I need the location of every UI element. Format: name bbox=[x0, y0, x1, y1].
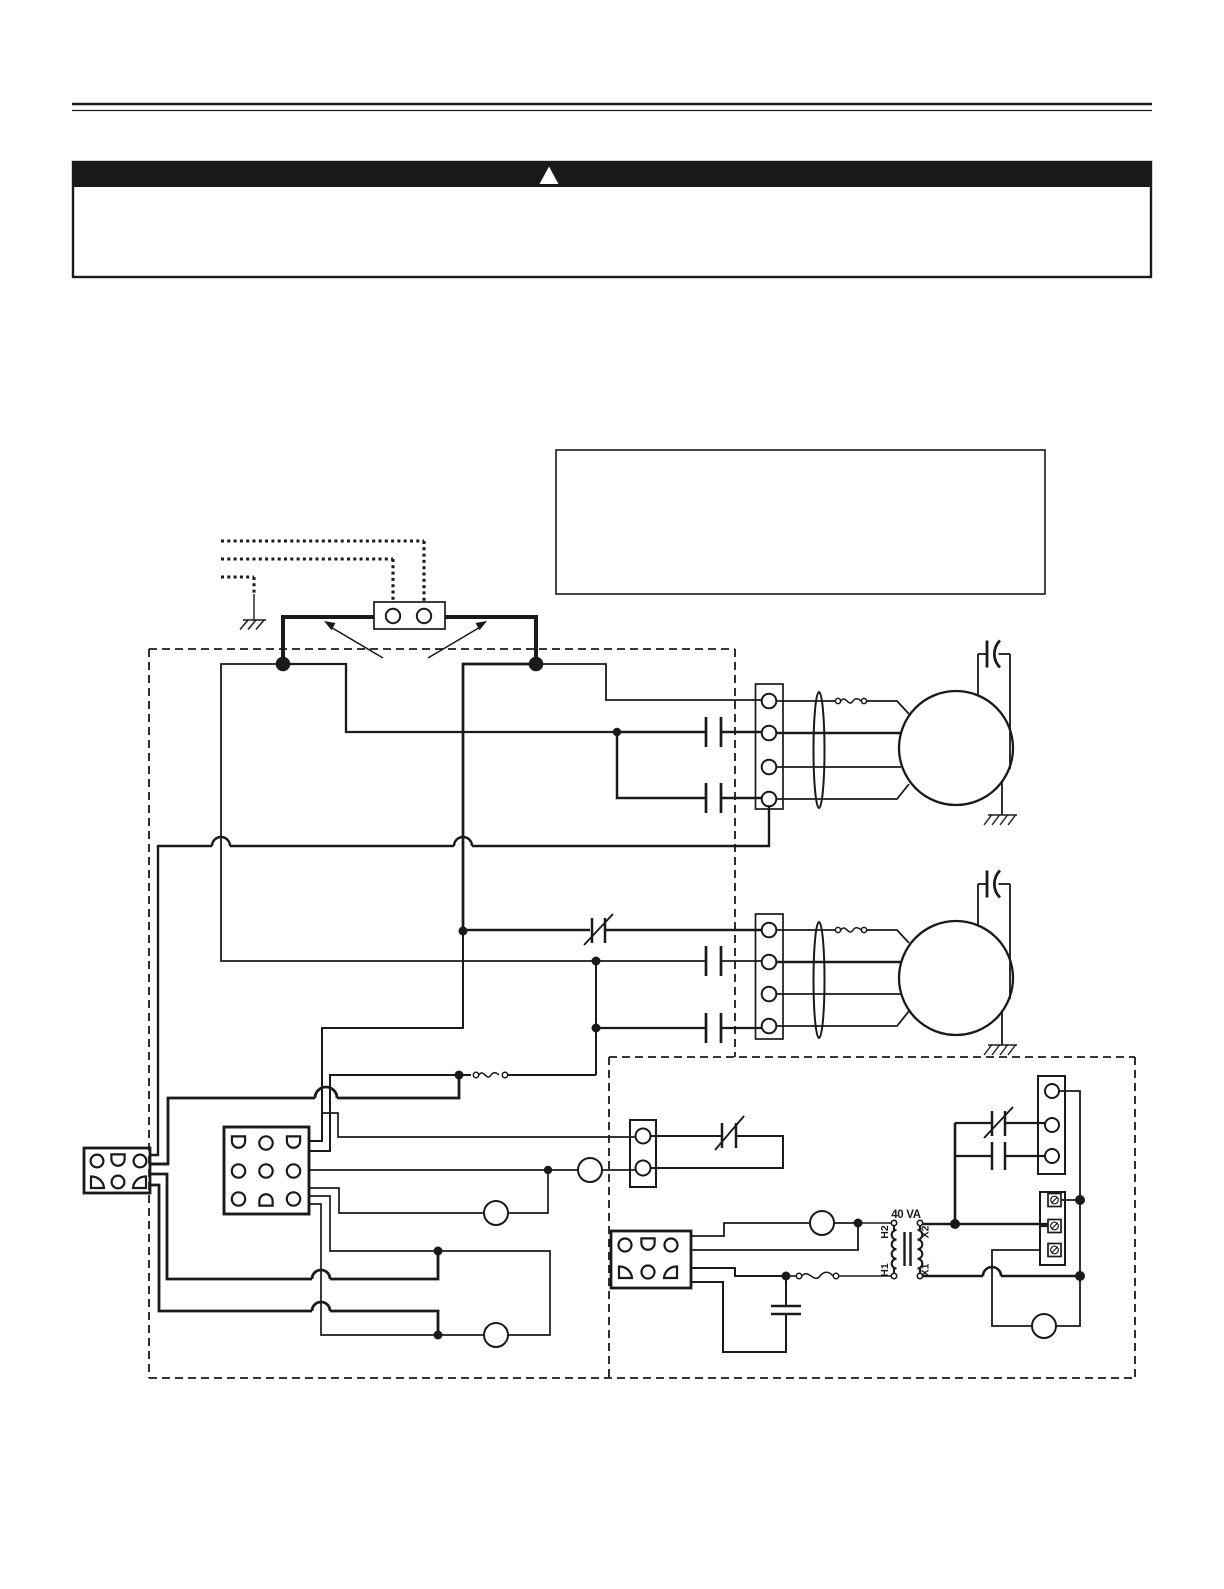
supply wire L1 (thick) bbox=[283, 617, 374, 666]
terminal TB2-3 bbox=[762, 987, 777, 1002]
wire overload to motor bbox=[866, 930, 909, 943]
wire L2 to blower terminal 1 bbox=[536, 664, 762, 700]
transformer T1 terminal H2 bbox=[891, 1220, 896, 1225]
junction box bbox=[374, 602, 445, 629]
wire J1 stub mid bbox=[309, 1196, 550, 1335]
wire J1 row2 to lamp bbox=[309, 1169, 578, 1171]
wire contact to blower terminal 2 bbox=[621, 731, 706, 734]
warning triangle icon bbox=[540, 167, 559, 185]
wire L1 to blower contact bbox=[283, 664, 617, 732]
connector J1 pin 21 bbox=[232, 1164, 245, 1177]
wire to stat contact bbox=[955, 1155, 992, 1157]
contact CR1 (condenser relay) bbox=[705, 946, 708, 976]
node lamp feed bbox=[544, 1166, 552, 1174]
screw terminal TB5-2 bbox=[1048, 1220, 1061, 1233]
warning box outline bbox=[73, 162, 1151, 277]
wire to contact CR2 bbox=[600, 1027, 706, 1029]
connector J1 pin 13 bbox=[287, 1136, 300, 1147]
plug P1 pin B1 bbox=[91, 1176, 104, 1188]
door switch contacts bbox=[721, 1123, 724, 1148]
board connector J1 bbox=[224, 1127, 309, 1214]
transformer T1 terminal H1 bbox=[891, 1273, 896, 1278]
wire plug feed down 1 bbox=[150, 1174, 312, 1279]
plug P1 pin B2 bbox=[112, 1176, 125, 1189]
wire J2 to relay coil bbox=[691, 1223, 810, 1236]
motor ground lead bbox=[1001, 1012, 1003, 1045]
wire terminal 1 to overload bbox=[776, 929, 835, 931]
wire terminal 4 to motor bbox=[776, 784, 909, 799]
transformer T1 primary coil bbox=[892, 1226, 897, 1274]
wire blower terminal 4 return bbox=[472, 807, 769, 846]
terminal TB2-2 bbox=[762, 955, 777, 970]
plug P1 pin A3 bbox=[134, 1155, 147, 1168]
svg-text:X1: X1 bbox=[920, 1263, 932, 1276]
indicator lamp DS1 bbox=[484, 1323, 508, 1347]
terminal strip TB2 bbox=[756, 914, 784, 1039]
callout arrow right bbox=[428, 626, 482, 658]
connector J1 pin 12 bbox=[259, 1136, 272, 1149]
svg-text:H2: H2 bbox=[879, 1225, 891, 1239]
node X2 bbox=[950, 1219, 960, 1229]
node 438b bbox=[434, 1331, 443, 1340]
field wire L1 (dotted) bbox=[221, 539, 424, 542]
wire harness loom bbox=[814, 922, 825, 1038]
wire riser to lamp bbox=[1056, 1276, 1080, 1326]
crossover hop bbox=[312, 1302, 330, 1311]
wire harness loom bbox=[814, 692, 825, 808]
node y961 bbox=[592, 957, 601, 966]
internal overload protector bbox=[835, 927, 840, 932]
cabinet outline left edge (dashed) bbox=[148, 649, 150, 1378]
terminal TB1-3 bbox=[762, 760, 777, 775]
terminal TB4-3 bbox=[1045, 1149, 1059, 1163]
control box top edge (dashed) bbox=[609, 1056, 1135, 1058]
connector J2 bbox=[611, 1231, 691, 1288]
wire J1 pin to lamp DS2 bbox=[309, 1188, 484, 1213]
wire TB3 switch loop bbox=[651, 1135, 723, 1137]
capacitor C5 lead bbox=[785, 1276, 787, 1306]
internal overload protector bbox=[835, 698, 840, 703]
wire fuse2 link bbox=[789, 1275, 796, 1277]
connector J1 pin 22 bbox=[259, 1164, 272, 1177]
wire overload to motor bbox=[866, 701, 909, 714]
wire terminal 2 to motor bbox=[776, 961, 901, 964]
warning banner (black bar) bbox=[73, 162, 1151, 187]
run capacitor lead bbox=[977, 654, 979, 695]
indicator lamp DS2 bbox=[484, 1201, 508, 1225]
indicator lamp DS3 bbox=[578, 1158, 602, 1182]
transformer T1 core bbox=[903, 1232, 905, 1266]
wire fuse link feed bbox=[508, 1074, 596, 1076]
contact BR2 (blower relay) bbox=[705, 783, 708, 813]
plug P1 pin A2 bbox=[111, 1154, 124, 1165]
svg-text:40 VA: 40 VA bbox=[891, 1209, 921, 1221]
cabinet outline right edge (dashed) bbox=[734, 649, 736, 1057]
transformer T1 terminal X1 bbox=[917, 1273, 922, 1278]
wire terminal 3 to motor bbox=[776, 766, 901, 768]
door switch slash bbox=[715, 1116, 744, 1150]
crossover hop bbox=[454, 837, 472, 846]
wire condenser branch down bbox=[309, 931, 463, 1141]
motor M1 bbox=[899, 691, 1013, 805]
screw terminal strip TB5 bbox=[1040, 1192, 1065, 1265]
node blower feed bbox=[613, 728, 621, 736]
indicator lamp DS4 bbox=[1032, 1314, 1056, 1338]
terminal TB2-1 bbox=[762, 923, 777, 938]
wire to stat switch bbox=[955, 1122, 992, 1124]
plug P1 pin B3 bbox=[133, 1176, 146, 1188]
terminal TB4-2 bbox=[1045, 1118, 1059, 1132]
node X1 join bbox=[1075, 1271, 1085, 1281]
field ground wire (dotted) bbox=[221, 575, 254, 578]
wire X1 net bbox=[923, 1275, 983, 1278]
node fuse2 bbox=[782, 1272, 791, 1281]
motor ground symbol bbox=[988, 814, 1017, 816]
wire J2 to fuse bbox=[691, 1268, 784, 1276]
wire coil to transformer H2 bbox=[834, 1222, 856, 1224]
connector J1 pin 32 bbox=[259, 1194, 272, 1205]
wire J2 mid return bbox=[691, 1223, 858, 1250]
note box bbox=[556, 450, 1045, 594]
wire plug feed down 2 bbox=[150, 1185, 312, 1311]
connector J1 pin 23 bbox=[287, 1164, 300, 1177]
node condenser feed bbox=[459, 927, 468, 936]
wire X2 to screw2 bbox=[1040, 1225, 1048, 1227]
terminal strip TB4 bbox=[1038, 1076, 1065, 1174]
wire X2 riser bbox=[954, 1123, 957, 1224]
terminal TB3-2 bbox=[636, 1161, 651, 1176]
wire contact BR2 to blower terminal 4 bbox=[721, 797, 762, 800]
wire terminal 1 to overload bbox=[776, 700, 835, 702]
control box right edge (dashed) bbox=[1134, 1057, 1136, 1378]
wire to contact BR2 bbox=[617, 732, 706, 798]
terminal TB1-2 bbox=[762, 726, 777, 741]
node L2 (junction) bbox=[529, 657, 544, 672]
plug connector P1 bbox=[84, 1148, 150, 1193]
terminal TB4-1 bbox=[1045, 1084, 1059, 1098]
stat switch contacts bbox=[991, 1111, 994, 1136]
wire heavy loop bbox=[337, 1075, 459, 1098]
field wire L2 (dotted) bbox=[221, 557, 393, 560]
terminal strip TB3 bbox=[630, 1120, 656, 1187]
crossover hop bbox=[315, 1087, 337, 1098]
junction box lug 1 bbox=[386, 609, 400, 623]
junction box lug 2 bbox=[417, 609, 431, 623]
wire X2 net bbox=[923, 1223, 1048, 1226]
cabinet outline top edge (dashed) bbox=[149, 648, 735, 650]
wire riser mid bbox=[1079, 1200, 1081, 1274]
run capacitor C2 bbox=[986, 871, 989, 898]
ground lead bbox=[253, 594, 255, 620]
wire plug to heavy loop bbox=[150, 1163, 168, 1166]
wire lamp to strip bbox=[602, 1169, 635, 1171]
connector J2 pin B2 bbox=[642, 1266, 655, 1279]
wire screw1 stub bbox=[1061, 1199, 1080, 1201]
cabinet outline bottom edge (dashed) bbox=[149, 1377, 1135, 1379]
relay coil K1 bbox=[810, 1211, 834, 1235]
wire L1 down left run bbox=[221, 664, 594, 961]
run capacitor lead right bbox=[999, 883, 1011, 885]
fuse link F1 bbox=[502, 1072, 507, 1077]
svg-text:H1: H1 bbox=[879, 1263, 891, 1277]
screw terminal TB5-1 bbox=[1048, 1194, 1061, 1207]
stat contact plates bbox=[991, 1142, 994, 1170]
wire vertical 596 bbox=[595, 961, 597, 1075]
wire lamp DS2 up bbox=[508, 1170, 548, 1213]
limit switch LS1 bbox=[591, 918, 594, 943]
capacitor C5 return bbox=[691, 1282, 786, 1352]
node fuse feed bbox=[455, 1071, 464, 1080]
run capacitor lead right bbox=[999, 653, 1011, 655]
connector J1 pin 31 bbox=[232, 1192, 245, 1205]
callout arrow left bbox=[329, 626, 383, 658]
terminal strip TB1 bbox=[756, 684, 784, 809]
fuse F2 bbox=[796, 1273, 801, 1278]
wire condenser contact feed bbox=[598, 960, 706, 962]
contact CR2 (condenser relay) bbox=[705, 1013, 708, 1043]
node y1028 bbox=[592, 1024, 601, 1033]
svg-text:X2: X2 bbox=[920, 1225, 932, 1238]
run capacitor C1 bbox=[986, 641, 989, 668]
run capacitor lead bbox=[977, 884, 979, 925]
connector J1 pin 11 bbox=[232, 1136, 245, 1147]
plug P1 pin A1 bbox=[91, 1155, 104, 1168]
motor ground symbol bbox=[988, 1044, 1017, 1046]
node L1 (junction) bbox=[276, 657, 291, 672]
connector J2 pin A1 bbox=[619, 1239, 632, 1252]
wire lamp DS4 to screw 3 bbox=[992, 1250, 1040, 1326]
node H2 feed bbox=[854, 1219, 863, 1228]
ground symbol (field) bbox=[243, 619, 266, 621]
node sq1 bbox=[1075, 1195, 1085, 1205]
contact BR1 (blower relay) bbox=[705, 717, 708, 747]
wire L2 down to condenser bbox=[463, 664, 536, 929]
terminal TB3-1 bbox=[636, 1129, 651, 1144]
wire limit to condenser terminal 1 bbox=[467, 929, 590, 932]
crossover hop bbox=[983, 1267, 1001, 1276]
terminal TB2-4 bbox=[762, 1019, 777, 1034]
crossover hop bbox=[212, 837, 230, 846]
connector J2 pin A2 bbox=[641, 1238, 654, 1249]
screw terminal TB5-3 bbox=[1048, 1244, 1061, 1257]
connector J1 pin 33 bbox=[287, 1192, 300, 1205]
motor ground lead bbox=[1001, 782, 1003, 815]
wire terminal 2 to motor bbox=[776, 732, 901, 735]
wire H2 node to terminal bbox=[858, 1222, 891, 1224]
stat switch slash bbox=[984, 1107, 1013, 1138]
node 438a bbox=[434, 1247, 443, 1256]
wire terminal 3 to motor bbox=[776, 993, 901, 995]
wire terminal 4 to motor bbox=[776, 1011, 909, 1026]
transformer T1 secondary coil bbox=[918, 1226, 923, 1274]
control box left edge (dashed) bbox=[608, 1057, 610, 1378]
crossover hop bbox=[312, 1270, 330, 1279]
page top rule (double) bbox=[72, 103, 1152, 106]
terminal TB1-1 bbox=[762, 694, 777, 709]
wire TB4-1 riser bbox=[1059, 1091, 1080, 1198]
connector J2 pin A3 bbox=[665, 1239, 678, 1252]
supply wire L2 (thick) bbox=[445, 617, 536, 666]
wire J1 stub low bbox=[309, 1204, 484, 1335]
transformer T1 terminal X2 bbox=[917, 1220, 922, 1225]
connector J2 pin B3 bbox=[664, 1266, 677, 1278]
connector J2 pin B1 bbox=[619, 1266, 632, 1278]
wire branch to low-voltage strip bbox=[322, 1113, 635, 1137]
terminal TB1-4 bbox=[762, 792, 777, 807]
wire fuse2 to H1 bbox=[839, 1275, 891, 1277]
motor M2 bbox=[899, 921, 1013, 1035]
capacitor C5 bbox=[771, 1305, 801, 1308]
